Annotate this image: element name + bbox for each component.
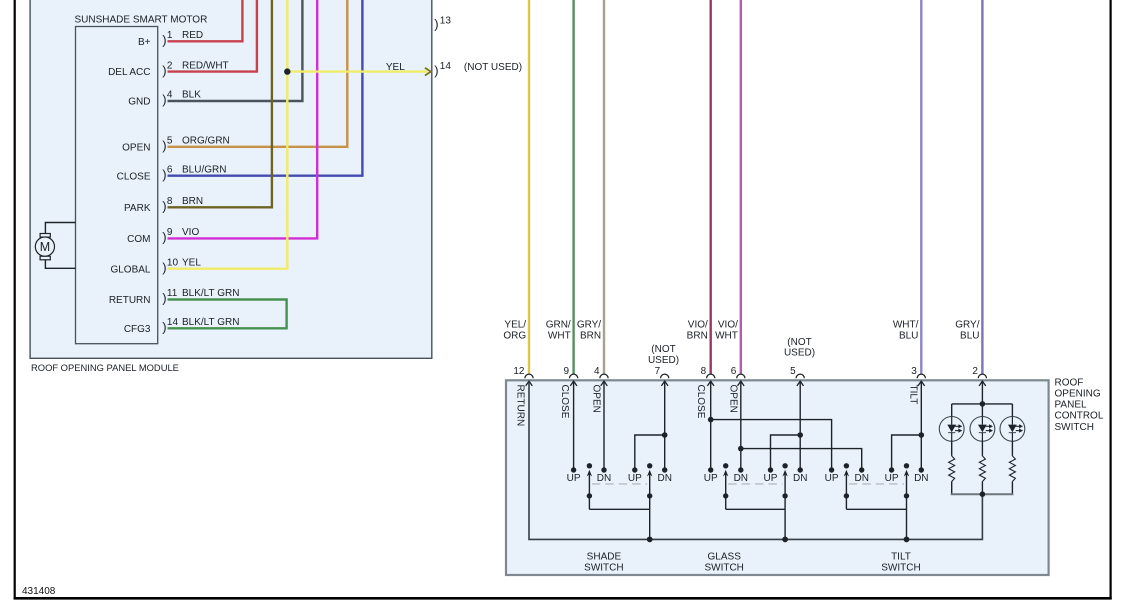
LED D1 bbox=[939, 404, 964, 441]
svg-text:YEL: YEL bbox=[182, 257, 201, 268]
roof opening panel module box bbox=[30, 0, 432, 358]
label VIO/WHT bbox=[715, 319, 738, 341]
label SHADE SWITCH bbox=[584, 551, 623, 573]
svg-text:DN: DN bbox=[734, 473, 748, 484]
svg-text:BLU/GRN: BLU/GRN bbox=[182, 164, 226, 175]
label (NOT USED) for switch pin 7 bbox=[648, 344, 679, 366]
switch pin 3 connector bbox=[911, 366, 925, 386]
svg-text:VIO/: VIO/ bbox=[688, 319, 708, 330]
svg-text:(NOT: (NOT bbox=[651, 344, 675, 355]
pin 5 OPEN connector bbox=[122, 136, 230, 154]
svg-text:4: 4 bbox=[594, 366, 600, 377]
svg-text:TILT: TILT bbox=[891, 551, 911, 562]
label VIO/BRN bbox=[687, 319, 708, 341]
pin 14 CFG3 connector bbox=[124, 317, 240, 335]
svg-text:BLU: BLU bbox=[899, 330, 918, 341]
wire VIO/WHT to switch pin 6 bbox=[740, 0, 742, 374]
switch pin 12 connector bbox=[513, 366, 533, 386]
svg-text:14: 14 bbox=[440, 61, 452, 72]
label TILT SWITCH bbox=[881, 551, 920, 573]
LED top bus bbox=[952, 403, 1013, 405]
LED D3 bbox=[1000, 404, 1025, 441]
svg-text:SWITCH: SWITCH bbox=[881, 563, 920, 574]
svg-text:BRN: BRN bbox=[580, 330, 601, 341]
label YEL/ORG bbox=[503, 319, 526, 341]
svg-text:CONTROL: CONTROL bbox=[1055, 411, 1104, 422]
svg-text:OPENING: OPENING bbox=[1055, 389, 1101, 400]
svg-text:5: 5 bbox=[790, 366, 796, 377]
svg-text:CFG3: CFG3 bbox=[124, 324, 151, 335]
svg-text:GND: GND bbox=[128, 97, 150, 108]
illumination wire from pin 2 bbox=[981, 382, 983, 404]
svg-text:6: 6 bbox=[731, 366, 737, 377]
svg-text:BLK/LT GRN: BLK/LT GRN bbox=[182, 317, 239, 328]
wire BLU/GRN from pin 6 CLOSE bbox=[168, 0, 363, 176]
svg-text:): ) bbox=[434, 17, 438, 32]
svg-text:DN: DN bbox=[657, 473, 671, 484]
pin 11 RETURN connector bbox=[109, 288, 240, 306]
pin 8 PARK connector bbox=[124, 196, 203, 214]
label (NOT USED) for switch pin 5 bbox=[784, 337, 815, 359]
wire RED/WHT from pin 2 DEL ACC bbox=[168, 0, 257, 72]
switch pin 4 connector bbox=[594, 366, 608, 386]
svg-text:VIO/: VIO/ bbox=[718, 319, 738, 330]
wire ORG/GRN from pin 5 OPEN bbox=[168, 0, 348, 147]
svg-text:): ) bbox=[434, 63, 438, 78]
svg-text:BRN: BRN bbox=[687, 330, 708, 341]
roof opening panel control switch box S1 bbox=[506, 380, 1049, 575]
svg-text:ORG/GRN: ORG/GRN bbox=[182, 136, 230, 147]
svg-text:CLOSE: CLOSE bbox=[695, 385, 706, 419]
svg-text:RETURN: RETURN bbox=[109, 295, 151, 306]
sunshade smart motor box U1 bbox=[76, 27, 158, 344]
svg-text:YEL/: YEL/ bbox=[504, 319, 526, 330]
svg-text:CLOSE: CLOSE bbox=[559, 385, 570, 419]
svg-text:USED): USED) bbox=[648, 355, 679, 366]
svg-text:10: 10 bbox=[167, 257, 179, 268]
resistor R2 bbox=[979, 441, 985, 494]
wire WHT/BLU to switch pin 3 bbox=[920, 0, 922, 374]
svg-text:SWITCH: SWITCH bbox=[1055, 422, 1094, 433]
svg-text:2: 2 bbox=[167, 60, 173, 71]
svg-text:RETURN: RETURN bbox=[514, 385, 525, 427]
svg-text:431408: 431408 bbox=[22, 586, 56, 597]
svg-text:DN: DN bbox=[914, 473, 928, 484]
svg-text:BRN: BRN bbox=[182, 196, 203, 207]
svg-text:PANEL: PANEL bbox=[1055, 400, 1087, 411]
svg-text:8: 8 bbox=[701, 366, 707, 377]
svg-text:GLOBAL: GLOBAL bbox=[110, 264, 150, 275]
svg-text:BLK/LT GRN: BLK/LT GRN bbox=[182, 288, 239, 299]
glass switch contacts and wiring bbox=[704, 382, 808, 543]
junction node on YEL wire bbox=[284, 68, 290, 74]
tilt switch contacts and wiring bbox=[708, 382, 929, 543]
switch pin 2 connector bbox=[972, 366, 986, 386]
svg-text:3: 3 bbox=[911, 366, 917, 377]
svg-text:PARK: PARK bbox=[124, 203, 151, 214]
shade switch contacts and wiring bbox=[567, 382, 672, 543]
label ROOF OPENING PANEL CONTROL SWITCH bbox=[1055, 377, 1104, 432]
svg-text:SUNSHADE SMART MOTOR: SUNSHADE SMART MOTOR bbox=[75, 14, 208, 25]
LED bottom bus bbox=[951, 493, 1014, 495]
return bus wire from pin 12 bbox=[529, 382, 982, 540]
pin 9 COM connector bbox=[127, 227, 199, 245]
svg-text:UP: UP bbox=[704, 473, 718, 484]
resistor R1 bbox=[949, 441, 955, 494]
wire BLK/LT GRN jumper pin 11 RETURN to pin 14 CFG3 bbox=[168, 300, 287, 329]
junction node pin 2 branch bbox=[980, 401, 986, 407]
svg-text:YEL: YEL bbox=[386, 62, 405, 73]
svg-text:4: 4 bbox=[167, 90, 173, 101]
svg-text:DN: DN bbox=[854, 473, 868, 484]
switch pin 6 connector bbox=[731, 366, 745, 386]
label GRY/BLU bbox=[955, 319, 979, 341]
svg-text:ROOF: ROOF bbox=[1055, 377, 1084, 388]
svg-text:OPEN: OPEN bbox=[591, 385, 602, 413]
wire BLK from pin 4 GND bbox=[168, 0, 303, 101]
svg-text:CLOSE: CLOSE bbox=[117, 171, 151, 182]
svg-text:UP: UP bbox=[825, 473, 839, 484]
wire YEL branch to module pin 14 bbox=[287, 68, 431, 76]
svg-text:SHADE: SHADE bbox=[587, 551, 622, 562]
wire RED from pin 1 B+ bbox=[168, 0, 243, 41]
junction node on return bus bbox=[647, 537, 653, 543]
svg-text:OPEN: OPEN bbox=[727, 385, 738, 413]
svg-text:11: 11 bbox=[167, 288, 178, 299]
svg-text:DN: DN bbox=[597, 473, 611, 484]
svg-text:ORG: ORG bbox=[503, 330, 526, 341]
switch pin 9 connector bbox=[564, 366, 578, 386]
wire VIO/BRN to switch pin 8 bbox=[710, 0, 712, 374]
junction node LED bottom bus bbox=[980, 491, 986, 497]
wire GRN/WHT to switch pin 9 bbox=[572, 0, 574, 374]
svg-text:12: 12 bbox=[513, 366, 525, 377]
label GRY/BRN bbox=[577, 319, 601, 341]
switch pin 7 connector bbox=[655, 366, 669, 386]
svg-text:14: 14 bbox=[167, 317, 179, 328]
svg-text:TILT: TILT bbox=[908, 385, 919, 405]
svg-text:RED: RED bbox=[182, 30, 203, 41]
svg-text:BLK: BLK bbox=[182, 90, 201, 101]
pin 6 CLOSE connector bbox=[117, 164, 227, 182]
svg-text:VIO: VIO bbox=[182, 227, 199, 238]
svg-text:SWITCH: SWITCH bbox=[584, 563, 623, 574]
svg-text:SWITCH: SWITCH bbox=[704, 563, 743, 574]
label GLASS SWITCH bbox=[704, 551, 743, 573]
svg-text:(NOT: (NOT bbox=[787, 337, 811, 348]
motor M1 bbox=[35, 223, 75, 269]
switch pin 5 connector bbox=[790, 366, 804, 386]
svg-text:9: 9 bbox=[564, 366, 570, 377]
svg-text:UP: UP bbox=[628, 473, 642, 484]
svg-text:GRN/: GRN/ bbox=[546, 319, 571, 330]
svg-text:GRY/: GRY/ bbox=[955, 319, 979, 330]
svg-text:8: 8 bbox=[167, 196, 173, 207]
wire VIO from pin 9 COM bbox=[168, 0, 318, 238]
svg-text:USED): USED) bbox=[784, 348, 815, 359]
junction node on return bus bbox=[782, 537, 788, 543]
label WHT/BLU bbox=[893, 319, 919, 341]
module pin 13 connector (unused) bbox=[434, 16, 451, 32]
svg-text:GRY/: GRY/ bbox=[577, 319, 601, 330]
module pin 14 connector bbox=[434, 61, 451, 78]
pin 4 GND connector bbox=[128, 90, 201, 108]
svg-text:BLU: BLU bbox=[960, 330, 979, 341]
svg-text:2: 2 bbox=[972, 366, 978, 377]
svg-text:WHT/: WHT/ bbox=[893, 319, 919, 330]
junction node on return bus bbox=[904, 537, 910, 543]
wire YEL/ORG to switch pin 12 bbox=[528, 0, 530, 374]
svg-text:COM: COM bbox=[127, 234, 150, 245]
wire YEL from pin 10 GLOBAL bbox=[168, 0, 288, 269]
wire GRY/BRN to switch pin 4 bbox=[603, 0, 605, 374]
svg-text:M: M bbox=[40, 240, 50, 254]
resistor R3 bbox=[1009, 441, 1015, 494]
svg-text:UP: UP bbox=[885, 473, 899, 484]
label GRN/WHT bbox=[546, 319, 571, 341]
svg-text:DEL ACC: DEL ACC bbox=[108, 67, 150, 78]
pin 1 B+ connector bbox=[138, 30, 203, 48]
svg-text:DN: DN bbox=[793, 473, 807, 484]
svg-text:UP: UP bbox=[567, 473, 581, 484]
wire BRN from pin 8 PARK bbox=[168, 0, 272, 207]
svg-text:UP: UP bbox=[764, 473, 778, 484]
pin 2 DEL ACC connector bbox=[108, 60, 229, 78]
svg-text:RED/WHT: RED/WHT bbox=[182, 60, 229, 71]
svg-text:B+: B+ bbox=[138, 37, 151, 48]
wire GRY/BLU to switch pin 2 bbox=[981, 0, 983, 374]
switch pin 8 connector bbox=[701, 366, 715, 386]
svg-text:7: 7 bbox=[655, 366, 661, 377]
svg-text:6: 6 bbox=[167, 164, 173, 175]
svg-text:1: 1 bbox=[167, 30, 173, 41]
LED D2 bbox=[970, 404, 995, 441]
svg-text:5: 5 bbox=[167, 136, 173, 147]
svg-text:ROOF OPENING PANEL MODULE: ROOF OPENING PANEL MODULE bbox=[31, 362, 179, 373]
svg-text:(NOT USED): (NOT USED) bbox=[464, 62, 522, 73]
svg-text:13: 13 bbox=[440, 16, 452, 27]
svg-text:WHT: WHT bbox=[715, 330, 738, 341]
svg-text:WHT: WHT bbox=[548, 330, 571, 341]
pin 10 GLOBAL connector bbox=[110, 257, 201, 275]
svg-text:9: 9 bbox=[167, 227, 173, 238]
svg-text:OPEN: OPEN bbox=[122, 142, 150, 153]
svg-text:GLASS: GLASS bbox=[708, 551, 742, 562]
